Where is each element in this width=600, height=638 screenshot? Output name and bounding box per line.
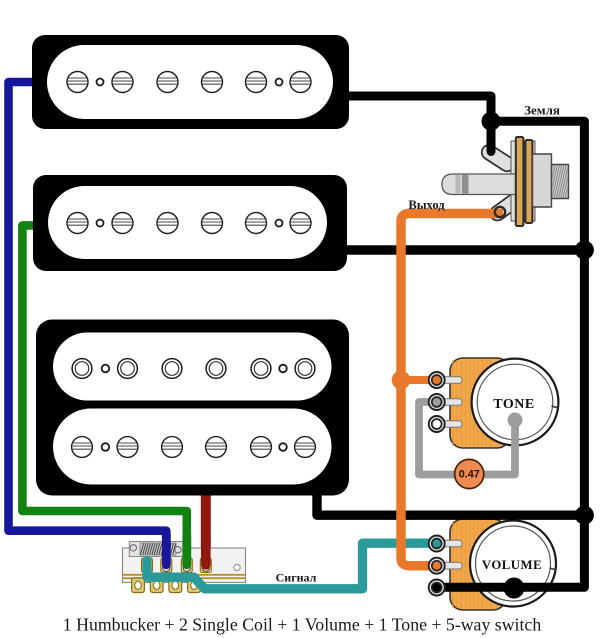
jack output hole: [495, 207, 505, 217]
capacitor 0.47: [455, 459, 484, 488]
junction dot middle pickup / bus: [575, 241, 594, 260]
wire teal signal (switch to volume): [147, 543, 435, 589]
pickup middle single coil: [33, 175, 347, 271]
potentiometer TONE: [440, 358, 559, 448]
wire green (middle pickup hot to switch): [22, 225, 186, 560]
junction dot orange at tone: [392, 371, 411, 390]
wire black neck pickup to jack ground: [345, 96, 491, 152]
jack sleeve: [533, 154, 552, 207]
svg-text:0.47: 0.47: [459, 469, 480, 481]
switch top lugs: [142, 558, 153, 573]
wire blue (neck pickup hot to switch): [9, 82, 167, 560]
tone lug rings: [429, 372, 445, 388]
wire dark-red (humbucker hot to switch): [201, 486, 211, 560]
volume lug rings: [429, 536, 445, 552]
svg-text:TONE: TONE: [493, 397, 534, 412]
junction dot jack ground: [482, 112, 501, 131]
switch bottom lugs: [132, 578, 145, 593]
volume casing ground dot: [504, 578, 525, 599]
wire gray tone capacitor loop: [419, 402, 515, 475]
wire dark-red end at switch: [201, 535, 211, 565]
svg-text:Выход: Выход: [408, 198, 445, 212]
jack ground lug: [479, 142, 517, 174]
svg-text:Сигнал: Сигнал: [276, 571, 317, 585]
jack nut: [543, 164, 584, 199]
pickup humbucker: [36, 320, 349, 496]
svg-text:1 Humbucker + 2 Single Coil +: 1 Humbucker + 2 Single Coil + 1 Volume +…: [63, 615, 542, 635]
junction dot humbucker / bus: [575, 506, 594, 525]
jack output lug: [487, 190, 526, 224]
output jack assembly: [442, 137, 584, 226]
potentiometer VOLUME: [440, 519, 557, 610]
wire orange branch to tone: [401, 376, 434, 384]
tone casing ground dot: [508, 413, 523, 428]
svg-text:VOLUME: VOLUME: [482, 558, 542, 572]
wire green end at switch: [182, 535, 191, 565]
jack washers: [516, 137, 524, 226]
wire black middle pickup ground: [343, 245, 584, 254]
5-way switch: [123, 542, 246, 593]
jack plug shaft: [442, 174, 516, 195]
wire black ground bus: [436, 121, 584, 587]
wire blue end at switch: [162, 535, 171, 565]
pickup neck single coil: [32, 35, 349, 129]
wire black humbucker ground: [317, 487, 584, 515]
svg-text:Земля: Земля: [524, 103, 560, 118]
wire orange output (jack to pots): [401, 214, 503, 566]
